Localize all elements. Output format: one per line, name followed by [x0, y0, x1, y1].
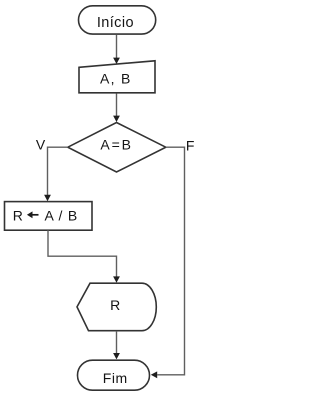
svg-text:Início: Início [97, 15, 134, 31]
wire input to decision [116, 93, 118, 116]
svg-text:F: F [186, 137, 195, 153]
svg-text:R: R [110, 297, 120, 313]
wire F branch (decision right to Fim) [157, 147, 184, 375]
arrowhead into decision [113, 116, 120, 122]
svg-text:V: V [36, 137, 46, 153]
arrowhead into process [44, 195, 51, 201]
svg-text:A, B: A, B [100, 71, 132, 87]
arrowhead into display [113, 276, 120, 282]
arrowhead into input A,B [113, 58, 120, 64]
display R [77, 283, 156, 331]
process R <- A / B [5, 202, 93, 231]
svg-text:A / B: A / B [45, 207, 79, 223]
wire display to Fim [116, 331, 118, 354]
decision A=B [68, 123, 166, 173]
svg-text:R: R [13, 207, 23, 223]
wire process to display [48, 230, 117, 276]
wire V branch (decision left to process) [48, 147, 68, 195]
wire Início to input [116, 35, 118, 58]
svg-text:Fim: Fim [103, 370, 128, 386]
terminator Início [79, 6, 156, 34]
terminator Fim [78, 360, 150, 390]
manual input A, B [79, 61, 155, 93]
arrowhead into Fim right [151, 371, 157, 378]
arrowhead into Fim top [113, 353, 120, 359]
svg-text:A=B: A=B [100, 137, 132, 153]
